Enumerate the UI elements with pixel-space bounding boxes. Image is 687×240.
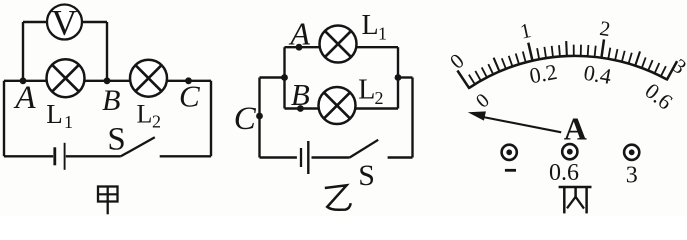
wire: yi left junction stub to outer bus	[260, 76, 285, 78]
wire: yi right branch vertical connecting both branches	[397, 47, 399, 108]
wire: jia bottom left segment to battery	[4, 155, 53, 157]
svg-text:2: 2	[152, 112, 161, 132]
caption bing (Chinese glyph drawn as strokes)	[559, 187, 592, 213]
wire: yi right junction stub to outer bus	[398, 76, 413, 78]
caption jia (Chinese glyph drawn as strokes)	[98, 187, 118, 215]
terminal label minus	[505, 169, 516, 172]
wire: yi second branch horizontal (through L2)	[285, 107, 399, 109]
switch S jia (open blade)	[121, 137, 155, 156]
svg-text:1: 1	[64, 112, 73, 132]
meter needle (pointer arrow)	[468, 111, 561, 132]
node C jia	[185, 77, 192, 84]
wire: yi top branch horizontal (through L1)	[285, 46, 399, 48]
svg-text:S: S	[107, 122, 125, 158]
svg-text:L: L	[46, 99, 63, 129]
svg-text:L: L	[358, 75, 375, 106]
wire: voltmeter right lead horizontal	[81, 21, 107, 23]
lamp L1 jia	[47, 59, 85, 97]
wire: yi outer right vertical	[411, 78, 413, 158]
svg-text:V: V	[51, 3, 77, 43]
wire: yi bottom left segment to battery	[260, 156, 297, 158]
svg-text:0.6: 0.6	[549, 160, 579, 186]
svg-text:3: 3	[626, 162, 638, 188]
svg-text:B: B	[102, 84, 120, 117]
svg-text:0.4: 0.4	[582, 60, 613, 89]
node B jia	[104, 77, 111, 84]
node A jia	[20, 77, 27, 84]
battery jia plates	[55, 143, 65, 170]
wire: jia left vertical (A down to bottom)	[3, 81, 5, 157]
voltmeter V1	[47, 3, 82, 43]
svg-text:A: A	[288, 16, 310, 52]
terminal 0.6 A	[562, 144, 577, 159]
lamp L2 jia	[130, 60, 167, 97]
svg-text:0.2: 0.2	[528, 59, 559, 88]
svg-text:C: C	[179, 79, 200, 114]
switch S yi (open blade)	[350, 140, 379, 158]
terminal 3 A	[624, 145, 639, 160]
svg-text:L: L	[137, 100, 153, 129]
wire: yi outer left vertical through node C	[258, 78, 260, 158]
svg-text:C: C	[234, 101, 257, 137]
node B yi	[297, 105, 304, 112]
wire: jia bottom right segment switch to corner	[160, 155, 211, 157]
node A yi	[296, 44, 303, 51]
terminal negative (-)	[502, 145, 517, 160]
lamp L1 yi	[320, 26, 357, 63]
lamp L2 yi	[319, 87, 356, 124]
svg-text:2: 2	[375, 88, 384, 108]
wire: yi bottom right segment switch to corner	[388, 156, 413, 158]
wire: yi bottom segment battery to switch	[312, 156, 350, 158]
junction node right yi	[395, 74, 402, 81]
wire: yi left branch vertical connecting both branches	[283, 47, 285, 108]
meter dial tick marks	[457, 39, 677, 88]
wire: voltmeter left vertical down to node A	[22, 22, 24, 81]
svg-text:1: 1	[378, 23, 387, 43]
wire: jia right vertical (C down to bottom)	[210, 81, 212, 157]
svg-text:A: A	[564, 111, 587, 147]
node C yi	[256, 113, 263, 120]
junction node left yi	[281, 74, 288, 81]
caption yi (Chinese glyph drawn as strokes)	[325, 185, 351, 210]
battery yi plates	[301, 141, 308, 174]
wire: voltmeter left lead horizontal	[23, 21, 48, 23]
svg-text:A: A	[13, 80, 36, 116]
wire: jia main horizontal bus A-B-C	[4, 80, 211, 82]
wire: voltmeter right vertical down to node B	[106, 22, 108, 81]
wire: jia bottom segment battery to switch pivot	[66, 155, 121, 157]
svg-text:B: B	[291, 77, 310, 112]
svg-text:S: S	[358, 159, 375, 192]
svg-text:L: L	[362, 10, 379, 41]
meter dial arc baseline	[469, 56, 667, 88]
